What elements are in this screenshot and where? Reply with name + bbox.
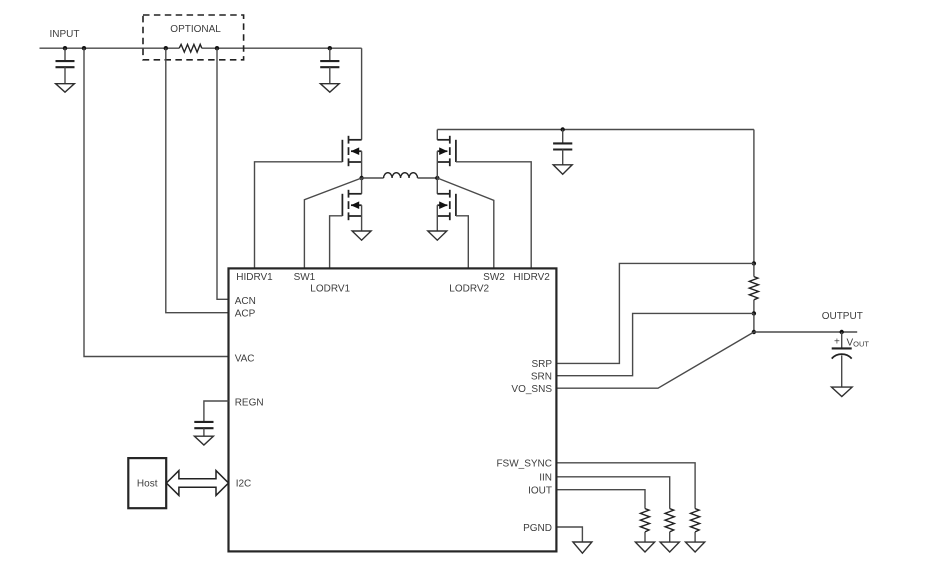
wire input rail left	[40, 47, 180, 49]
svg-text:OUTPUT: OUTPUT	[822, 311, 863, 322]
wire SRN	[556, 313, 754, 375]
capacitor C1 (input)	[56, 48, 75, 83]
capacitor C4 (Vout, polarized)	[832, 332, 870, 387]
svg-text:VOUT: VOUT	[847, 338, 870, 349]
node mid-cap junction	[328, 46, 332, 50]
wire input rail right	[202, 47, 362, 49]
svg-text:I2C: I2C	[236, 478, 252, 489]
wire FSW_SYNC	[556, 463, 695, 509]
ground (Q2 source)	[352, 231, 371, 240]
ground (input cap)	[56, 84, 75, 93]
svg-text:+: +	[834, 337, 840, 348]
ground (R4)	[660, 542, 679, 552]
resistor R3 (IOUT)	[640, 509, 649, 542]
wire rail corner to Q1 drain	[361, 48, 363, 140]
wire LODRV1	[330, 216, 343, 269]
transistor Q1 (high-side left NMOS)	[342, 136, 361, 178]
inductor L1	[362, 173, 438, 178]
op-amp U1 IC body	[229, 268, 557, 551]
svg-text:VAC: VAC	[235, 353, 255, 364]
svg-text:ACN: ACN	[235, 296, 256, 307]
wire SW2	[437, 178, 494, 268]
svg-text:OPTIONAL: OPTIONAL	[170, 24, 221, 35]
wire output	[754, 331, 857, 333]
ground (Vout)	[832, 387, 853, 396]
ground (Q4 source)	[428, 231, 447, 240]
transistor Q2 (low-side left NMOS)	[342, 178, 361, 231]
resistor R4 (IIN)	[665, 509, 674, 542]
resistor R1 (optional, in series)	[179, 44, 202, 52]
optional dashed box	[143, 15, 244, 60]
node input-cap junction	[63, 46, 67, 50]
wire SW1	[304, 178, 361, 268]
node output cap junction	[561, 127, 565, 131]
wire Rsense to output node	[753, 313, 755, 332]
wire LODRV2	[456, 216, 468, 269]
svg-text:ACP: ACP	[235, 309, 256, 320]
svg-text:PGND: PGND	[523, 523, 552, 534]
capacitor C5 (REGN)	[194, 422, 213, 436]
wire right rail down	[753, 130, 755, 264]
wire PGND	[556, 527, 582, 542]
wire ACN branch	[217, 48, 229, 299]
node Rsense top	[752, 261, 756, 265]
node output	[752, 330, 756, 334]
node switch SW1	[359, 176, 363, 180]
capacitor C2 (mid rail)	[320, 48, 339, 83]
resistor R2 (current sense)	[749, 263, 758, 313]
svg-text:INPUT: INPUT	[50, 29, 80, 40]
ground (R3)	[635, 542, 654, 552]
capacitor C3 (rail)	[553, 130, 572, 165]
ground (R5)	[686, 542, 705, 552]
wire VO_SNS	[556, 332, 754, 388]
svg-text:Host: Host	[137, 479, 158, 490]
wire IIN	[556, 477, 669, 509]
ground (mid cap)	[320, 84, 339, 93]
node Rsense bottom	[752, 311, 756, 315]
svg-text:LODRV2: LODRV2	[449, 284, 489, 295]
node vac branch junction	[82, 46, 86, 50]
svg-text:SRP: SRP	[531, 359, 552, 370]
transistor Q3 (high-side right NMOS)	[437, 130, 456, 179]
svg-text:SW2: SW2	[483, 272, 505, 283]
wire SRP	[556, 263, 754, 363]
wire HIDRV2	[456, 162, 531, 269]
svg-text:VO_SNS: VO_SNS	[511, 384, 552, 395]
svg-text:IIN: IIN	[539, 473, 552, 484]
wire REGN	[204, 401, 229, 422]
resistor R5 (FSW_SYNC)	[691, 509, 700, 542]
svg-text:IOUT: IOUT	[528, 486, 552, 497]
svg-text:HIDRV1: HIDRV1	[236, 272, 273, 283]
svg-text:SW1: SW1	[294, 272, 316, 283]
ground (C3)	[553, 165, 572, 175]
svg-text:HIDRV2: HIDRV2	[513, 272, 550, 283]
svg-text:LODRV1: LODRV1	[310, 284, 350, 295]
wire IOUT	[556, 490, 645, 509]
transistor Q4 (low-side right NMOS)	[437, 178, 456, 231]
ground (REGN cap)	[194, 436, 213, 445]
node Vout cap junction	[840, 330, 844, 334]
wire ACP branch	[166, 48, 229, 313]
svg-text:FSW_SYNC: FSW_SYNC	[496, 459, 552, 470]
node acp branch junction	[164, 46, 168, 50]
node switch SW2	[435, 176, 439, 180]
wire top output rail	[437, 129, 754, 131]
wire HIDRV1	[255, 162, 343, 269]
I2C bidirectional arrow	[166, 471, 228, 496]
svg-text:SRN: SRN	[531, 372, 552, 383]
svg-text:REGN: REGN	[235, 397, 264, 408]
Host box	[128, 458, 166, 508]
ground (PGND)	[573, 542, 592, 553]
node acn branch junction	[215, 46, 219, 50]
wire VAC branch	[84, 48, 229, 356]
